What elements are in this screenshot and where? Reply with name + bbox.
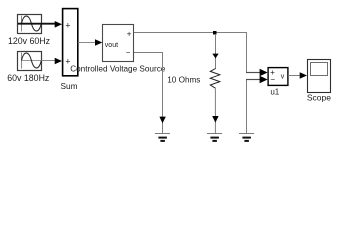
svg-text:Controlled Voltage Source: Controlled Voltage Source — [70, 64, 166, 73]
svg-text:+: + — [65, 21, 70, 31]
ground 3 symbol — [239, 134, 254, 141]
wire ground 3 to u1 minus input — [246, 80, 248, 134]
svg-text:u1: u1 — [270, 87, 279, 96]
svg-text:−: − — [270, 75, 275, 84]
sine source block 60v 180Hz — [18, 52, 42, 71]
sine source block 120v 60Hz — [18, 15, 42, 34]
svg-text:120v 60Hz: 120v 60Hz — [8, 36, 50, 46]
svg-text:60v 180Hz: 60v 180Hz — [7, 73, 49, 83]
svg-text:Sum: Sum — [60, 81, 77, 91]
arrowhead on resistor top wire — [212, 54, 218, 59]
svg-text:+: + — [127, 29, 132, 38]
voltage measurement block u1 — [268, 68, 288, 86]
wire Sum to Controlled Voltage Source — [78, 42, 96, 44]
Controlled Voltage Source block — [103, 25, 134, 62]
wire node down to resistor — [215, 34, 217, 69]
Scope block — [308, 60, 331, 93]
ground 2 symbol — [207, 134, 222, 141]
wire CVS minus output to ground 1 — [134, 53, 163, 134]
ground 1 symbol — [155, 134, 170, 141]
arrowhead into ground 1 — [159, 117, 165, 124]
resistor R zigzag — [210, 69, 220, 89]
arrowhead into Sum input 2 — [55, 58, 62, 65]
svg-text:vout: vout — [105, 42, 118, 49]
arrowhead into CVS input — [95, 39, 102, 46]
arrowhead into u1 plus input — [260, 69, 268, 77]
junction node dot — [213, 31, 217, 35]
svg-text:v: v — [281, 73, 285, 80]
wire CVS plus output to node to u1 plus input — [134, 33, 247, 73]
arrowhead into Scope — [300, 72, 307, 79]
arrowhead into ground 2 — [212, 116, 218, 123]
svg-text:−: − — [126, 48, 131, 57]
wire sine2 to Sum — [42, 60, 56, 62]
arrowhead into Sum input 1 — [55, 21, 62, 28]
wire u1 to Scope — [288, 75, 301, 77]
Sum block — [63, 9, 78, 76]
svg-text:10 Ohms: 10 Ohms — [167, 76, 200, 85]
wire resistor to ground 2 — [214, 88, 216, 133]
svg-text:Scope: Scope — [307, 93, 331, 103]
wire sine1 to Sum — [18, 23, 56, 25]
arrowhead into u1 minus input — [260, 76, 268, 84]
